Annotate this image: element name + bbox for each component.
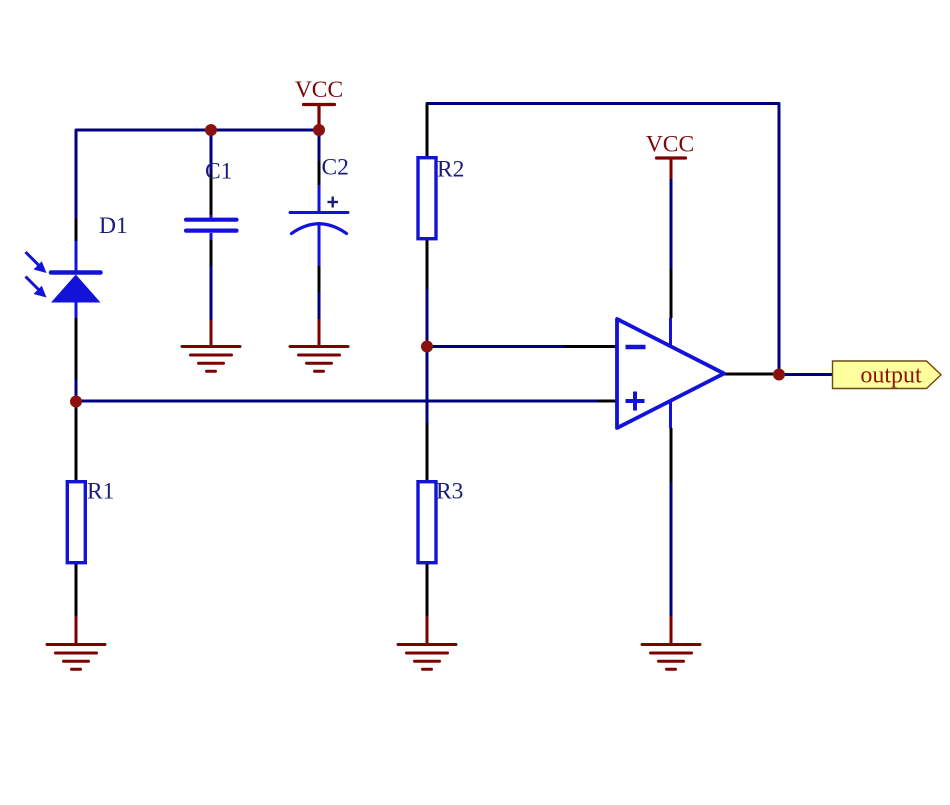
junction dot (C2 / VCC rail)	[313, 124, 325, 136]
wire: C2 ground pin (dark red)	[318, 319, 321, 346]
op-amp U1	[617, 318, 724, 428]
wire: R1 ground pin (dark red)	[75, 616, 78, 644]
wire: C1 lower pin (black)	[210, 240, 213, 266]
wire: R2 upper pin (black)	[426, 104, 429, 158]
C2 plus sign	[328, 197, 339, 208]
wire: C1 upper net	[210, 130, 213, 174]
svg-text:output: output	[860, 363, 922, 389]
wire: R2 lower pin (black)	[426, 239, 429, 289]
wire: top-right feedback rail	[427, 104, 779, 375]
wire: op-amp VCC net	[670, 179, 673, 269]
junction node B	[421, 341, 433, 353]
capacitor C1	[186, 215, 237, 240]
wire: D1 cathode pin (black)	[75, 318, 78, 380]
power VCC symbol (op-amp)	[657, 156, 686, 159]
wire: R3 upper pin (black)	[426, 423, 429, 482]
wire: op-amp bottom power pin (black)	[670, 428, 673, 482]
D1 light arrow 1	[26, 252, 47, 273]
wire: plus-input pin (black)	[598, 400, 617, 403]
ground (op-amp)	[642, 645, 700, 670]
wire: C2 upper net	[318, 130, 321, 161]
wire: top-left VCC rail	[76, 130, 319, 219]
label R3	[436, 479, 463, 505]
junction node A	[70, 396, 82, 408]
wire: op-amp ground net	[670, 482, 673, 616]
wire: node A to R1 (black)	[75, 403, 78, 482]
svg-text:VCC: VCC	[295, 77, 343, 103]
ground (R1)	[47, 645, 105, 670]
wire: output node to flag	[779, 373, 833, 376]
wire: C2 lower pin (black)	[318, 266, 321, 292]
wire: minus-input pin (black)	[564, 345, 617, 348]
svg-text:R1: R1	[87, 479, 114, 505]
resistor R3	[418, 482, 436, 563]
wire: R2 to node B	[426, 289, 429, 346]
wire: D1 anode pin (black)	[75, 219, 78, 241]
power VCC symbol (C2 rail)	[304, 105, 335, 131]
label R1	[87, 479, 114, 505]
svg-text:C1: C1	[205, 159, 232, 185]
wire: node B down	[426, 346, 429, 423]
ground (C2)	[290, 347, 348, 372]
photodiode D1	[51, 241, 101, 318]
capacitor C2 (polarized)	[290, 185, 348, 266]
svg-text:D1: D1	[99, 213, 128, 239]
label C1	[205, 159, 232, 185]
wire: C1 ground pin (dark red)	[210, 320, 213, 346]
svg-text:R3: R3	[436, 479, 463, 505]
wire: op-amp VCC stub (dark red)	[670, 159, 673, 179]
label C2	[322, 155, 349, 181]
label VCC (op-amp)	[646, 132, 694, 158]
D1 light arrow 2	[26, 277, 47, 298]
wire: C1 lower net	[210, 266, 213, 320]
wire: R3 to ground (black)	[426, 562, 429, 616]
wire: op-amp top power pin (black)	[670, 269, 673, 318]
output flag	[833, 361, 942, 389]
junction output node	[773, 369, 785, 381]
resistor R1	[67, 482, 85, 563]
ground (C1)	[182, 347, 240, 372]
svg-text:C2: C2	[322, 155, 349, 181]
wire: D1 cathode to node A	[75, 380, 78, 403]
wire: C2 lower net	[318, 292, 321, 319]
label D1	[99, 213, 128, 239]
wire: minus-input rail from node B	[427, 345, 564, 348]
wire: plus-input rail from node A	[76, 400, 598, 403]
ground (R3)	[398, 645, 456, 670]
wire: op-amp ground pin (dark red)	[670, 616, 673, 644]
svg-text:R2: R2	[437, 157, 464, 183]
wire: op-amp output pin (black)	[724, 373, 776, 376]
junction dot (C1 / VCC rail)	[205, 124, 217, 136]
label R2	[437, 157, 464, 183]
wire: R1 to ground (black)	[75, 563, 78, 616]
resistor R2	[418, 158, 436, 239]
wire: C1 upper pin (black)	[210, 174, 213, 215]
svg-text:VCC: VCC	[646, 132, 694, 158]
label VCC (top)	[295, 77, 343, 103]
wire: C2 upper pin (black)	[318, 161, 321, 185]
wire: R3 ground pin (dark red)	[426, 616, 429, 644]
